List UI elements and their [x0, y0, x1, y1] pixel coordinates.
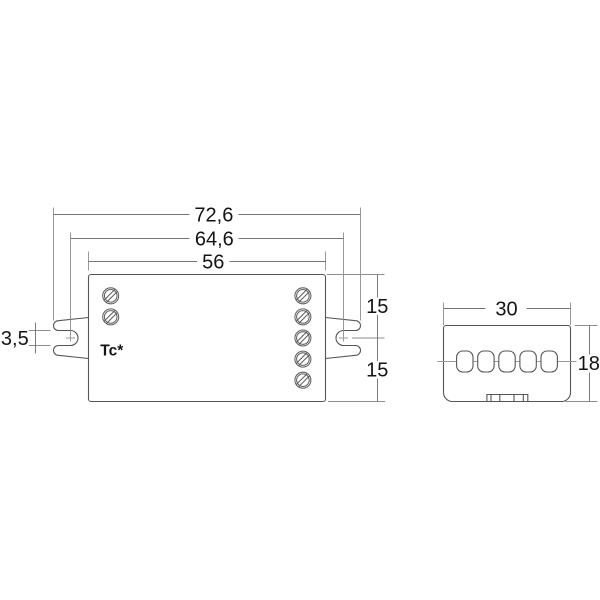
label Tc* — [100, 342, 124, 359]
dimension line 18 — [578, 326, 600, 402]
svg-text:30: 30 — [495, 298, 517, 320]
bottom connector ledge — [487, 395, 528, 402]
extension line left outer 72,6 — [53, 208, 55, 321]
svg-text:56: 56 — [202, 251, 224, 273]
screw terminal L2 — [103, 309, 119, 325]
terminal bump 1 — [457, 351, 473, 372]
screw terminal R4 — [295, 351, 311, 367]
dimension line 15 upper — [366, 275, 388, 339]
extension line body left 56 — [88, 252, 90, 271]
screw terminal R5 — [295, 372, 311, 388]
svg-text:3,5: 3,5 — [1, 328, 29, 350]
extension line right hole 64,6 — [343, 233, 345, 335]
left mounting tab — [54, 318, 89, 359]
extension line side bottom 18 — [566, 401, 598, 403]
screw terminal R1 — [295, 288, 311, 304]
svg-text:64,6: 64,6 — [195, 228, 234, 250]
dimension line 15 lower — [366, 338, 388, 402]
dimension 3,5 extension lines — [29, 331, 51, 346]
svg-text:Tc*: Tc* — [100, 342, 124, 359]
enclosure body top view — [89, 275, 326, 402]
extension line body bottom right 15 — [328, 401, 385, 403]
extension line side left 30 — [443, 303, 445, 326]
svg-text:18: 18 — [578, 353, 600, 375]
terminal bump 2 — [478, 351, 494, 372]
dimension line 3,5 — [1, 323, 36, 354]
terminal bump 3 — [499, 351, 515, 372]
side view mid parting line — [438, 361, 577, 363]
right mounting hole crosshair — [339, 335, 348, 342]
dimension line 64,6 — [71, 228, 344, 250]
svg-text:15: 15 — [366, 360, 388, 382]
svg-text:72,6: 72,6 — [194, 204, 233, 226]
screw terminal R3 — [295, 330, 311, 346]
extension line side top 18 — [575, 325, 598, 327]
extension line hole center right 15 — [352, 337, 385, 339]
svg-text:15: 15 — [366, 296, 388, 318]
dimension line 30 — [444, 298, 571, 320]
extension line body top right 15 — [327, 274, 385, 276]
extension line right outer 72,6 — [360, 208, 362, 321]
dimension line 72,6 — [54, 204, 361, 226]
screw terminal L1 — [103, 288, 119, 304]
extension line body right 56 — [325, 252, 327, 271]
right mounting tab — [326, 318, 361, 359]
terminal bump 4 — [520, 351, 536, 372]
screw terminal R2 — [295, 309, 311, 325]
enclosure body side view — [444, 326, 571, 402]
extension line side right 30 — [570, 303, 572, 326]
extension line left hole 64,6 — [70, 233, 72, 335]
left mounting hole crosshair — [66, 335, 75, 342]
terminal bump 5 — [541, 351, 557, 372]
dimension line 56 — [89, 251, 326, 273]
